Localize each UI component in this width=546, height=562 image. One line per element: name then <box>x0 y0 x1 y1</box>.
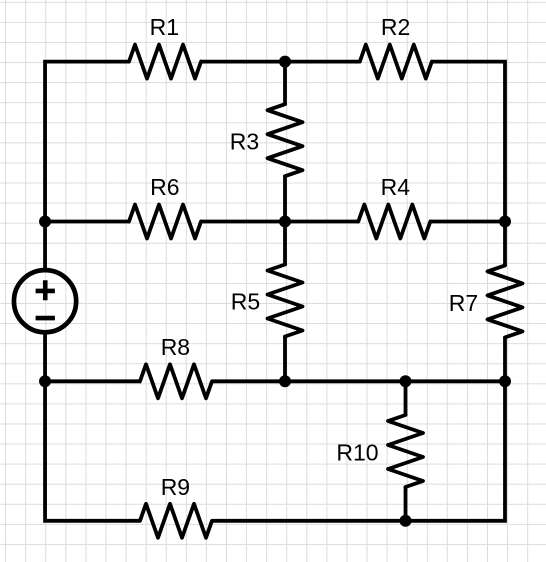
resistor R5 <box>268 265 303 337</box>
wire: bottom wire left of R9 + bottom-left corner + left rail lower <box>45 333 140 521</box>
svg-text:R1: R1 <box>150 14 179 40</box>
wire: top wire after R2 + top-right corner + right rail to R7 <box>431 62 505 267</box>
resistor R2 <box>360 45 432 79</box>
resistor R3 <box>268 104 303 176</box>
resistor R4 <box>358 205 430 239</box>
wire: mid wire left segment <box>45 220 130 224</box>
node: left lower junction <box>39 375 51 387</box>
wire: top wire between R1 and R2 <box>200 60 361 64</box>
wire: mid wire after R4 <box>430 220 505 224</box>
node: left middle junction <box>39 216 51 228</box>
wire: third wire left segment <box>45 379 141 383</box>
wire: right rail below R7 + bottom-right corner + bottom wire to R9 <box>212 337 505 521</box>
svg-text:R3: R3 <box>230 129 259 155</box>
voltage source V1 <box>14 270 76 332</box>
resistor R8 <box>140 364 212 398</box>
resistor R7 <box>488 265 523 337</box>
node: R10 bottom junction <box>400 515 412 527</box>
wire: R10 column bottom stub <box>404 486 408 520</box>
resistor R10 <box>388 415 423 487</box>
node: center junction <box>279 216 291 228</box>
svg-text:R5: R5 <box>231 289 260 315</box>
svg-text:R7: R7 <box>449 290 478 316</box>
node: R10 top junction <box>400 375 412 387</box>
resistor R6 <box>129 205 201 239</box>
wire: third wire after R8 <box>211 379 505 383</box>
wire: mid wire between R6 and R4 <box>200 220 359 224</box>
svg-text:R4: R4 <box>381 174 411 200</box>
svg-text:R8: R8 <box>161 334 190 360</box>
resistor R9 <box>140 504 212 538</box>
wire: center column between R3 and R5 <box>283 175 287 265</box>
node: right lower junction <box>499 375 511 387</box>
svg-text:R9: R9 <box>161 474 190 500</box>
node: right middle junction <box>499 216 511 228</box>
wire: left rail upper + top-left corner + top wire lead <box>45 62 130 270</box>
wire: R10 column top stub <box>404 381 408 416</box>
node: center lower junction <box>279 375 291 387</box>
wire: center column below R5 <box>283 336 287 382</box>
wire: center column top stub <box>283 62 287 105</box>
svg-text:R2: R2 <box>381 14 410 40</box>
svg-text:R10: R10 <box>336 439 378 465</box>
node: top center junction <box>279 56 291 68</box>
resistor R1 <box>129 45 201 79</box>
svg-text:R6: R6 <box>150 174 179 200</box>
